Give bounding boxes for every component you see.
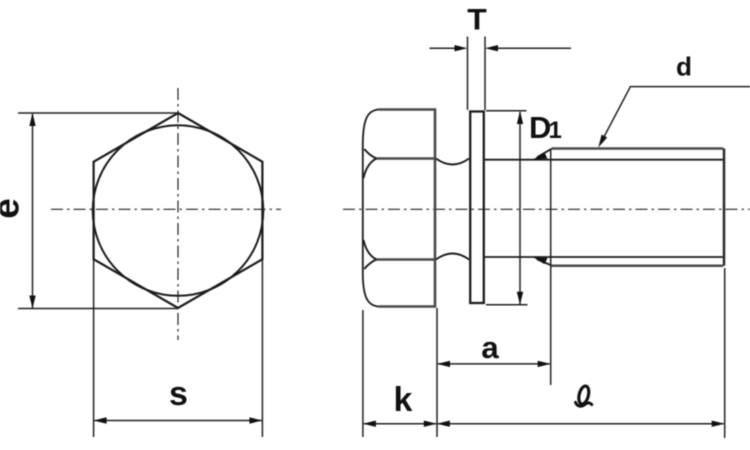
extension line a left / k right (head right face) <box>436 308 438 437</box>
extension line D1 top <box>486 110 527 112</box>
shank/root line top <box>485 159 725 161</box>
extension line D1 bottom <box>486 304 528 306</box>
svg-text:d: d <box>676 52 692 82</box>
arrow l right <box>712 421 725 427</box>
dimension line a <box>438 363 550 365</box>
chamfer arc bottom face <box>364 260 376 270</box>
extension line s left <box>93 259 95 437</box>
extension line e top <box>18 112 178 114</box>
head rounded corners and left edge <box>363 110 379 307</box>
svg-text:e: e <box>0 198 27 219</box>
svg-text:T: T <box>467 4 487 37</box>
chamfer arc middle face upper <box>364 159 377 179</box>
bolt head side view: outer thick edges <box>379 110 436 307</box>
label l (script ell) <box>576 385 592 406</box>
thread crest line bottom <box>552 264 724 267</box>
arrow T right <box>485 45 498 51</box>
dimension line T left segment <box>430 47 465 49</box>
arrow s right <box>249 417 262 423</box>
chamfer arc middle face lower <box>364 240 377 260</box>
extension line e bottom <box>18 308 178 310</box>
bolt end face <box>723 149 726 266</box>
arrow a left <box>437 361 450 367</box>
dimension line T right segment <box>489 47 572 49</box>
centerline vertical (left view) <box>177 88 179 340</box>
thread runout wedge top <box>533 153 547 160</box>
arrow l left <box>437 421 450 427</box>
arrow k left <box>363 421 376 427</box>
svg-text:k: k <box>394 381 413 419</box>
arrow k right <box>424 421 437 427</box>
svg-text:1: 1 <box>549 117 562 144</box>
extension line T left <box>467 37 469 111</box>
facet line upper <box>377 157 436 160</box>
chamfer circle <box>93 125 264 296</box>
facet line lower <box>377 258 436 261</box>
arrow D1 top <box>517 111 523 124</box>
extension line k left (head left face) <box>362 310 364 437</box>
extension line l right (bolt end) <box>724 268 726 438</box>
arrow e bottom <box>29 296 35 309</box>
chamfer arc top face <box>364 149 376 159</box>
thread runout bottom <box>537 259 552 265</box>
arrow D1 bottom <box>517 292 523 305</box>
shank/root line bottom <box>485 256 725 258</box>
thread runout wedge bottom <box>533 257 547 264</box>
washer (side view) <box>470 112 484 304</box>
neck curve bottom <box>436 254 469 260</box>
svg-text:a: a <box>481 330 499 365</box>
dimension line l <box>438 423 724 425</box>
extension line s right <box>261 259 263 437</box>
dimension line e <box>32 114 34 308</box>
dimension line k <box>364 423 436 425</box>
arrow T left <box>455 45 468 51</box>
extension line T right <box>484 37 486 111</box>
dimension line s <box>95 420 262 422</box>
arrow d leader <box>598 135 607 148</box>
thread crest line top <box>552 147 724 150</box>
centerline horizontal (left view) <box>51 208 281 210</box>
neck curve top <box>436 159 469 165</box>
leader line d <box>601 87 750 144</box>
svg-text:s: s <box>169 375 188 413</box>
dimension line D1 <box>519 112 521 304</box>
extension line a right (thread start) <box>550 149 552 385</box>
thread runout top <box>537 149 552 158</box>
centerline horizontal (side view) <box>343 208 750 210</box>
arrow a right <box>538 361 551 367</box>
arrow e top <box>29 113 35 126</box>
arrow s left <box>94 417 107 423</box>
hexagon (bolt head, front view) <box>94 113 263 308</box>
